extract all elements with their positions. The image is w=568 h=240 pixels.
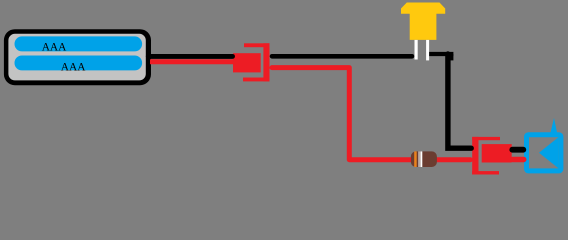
svg-text:AAA: AAA <box>42 41 67 53</box>
svg-text:AAA: AAA <box>61 62 86 74</box>
